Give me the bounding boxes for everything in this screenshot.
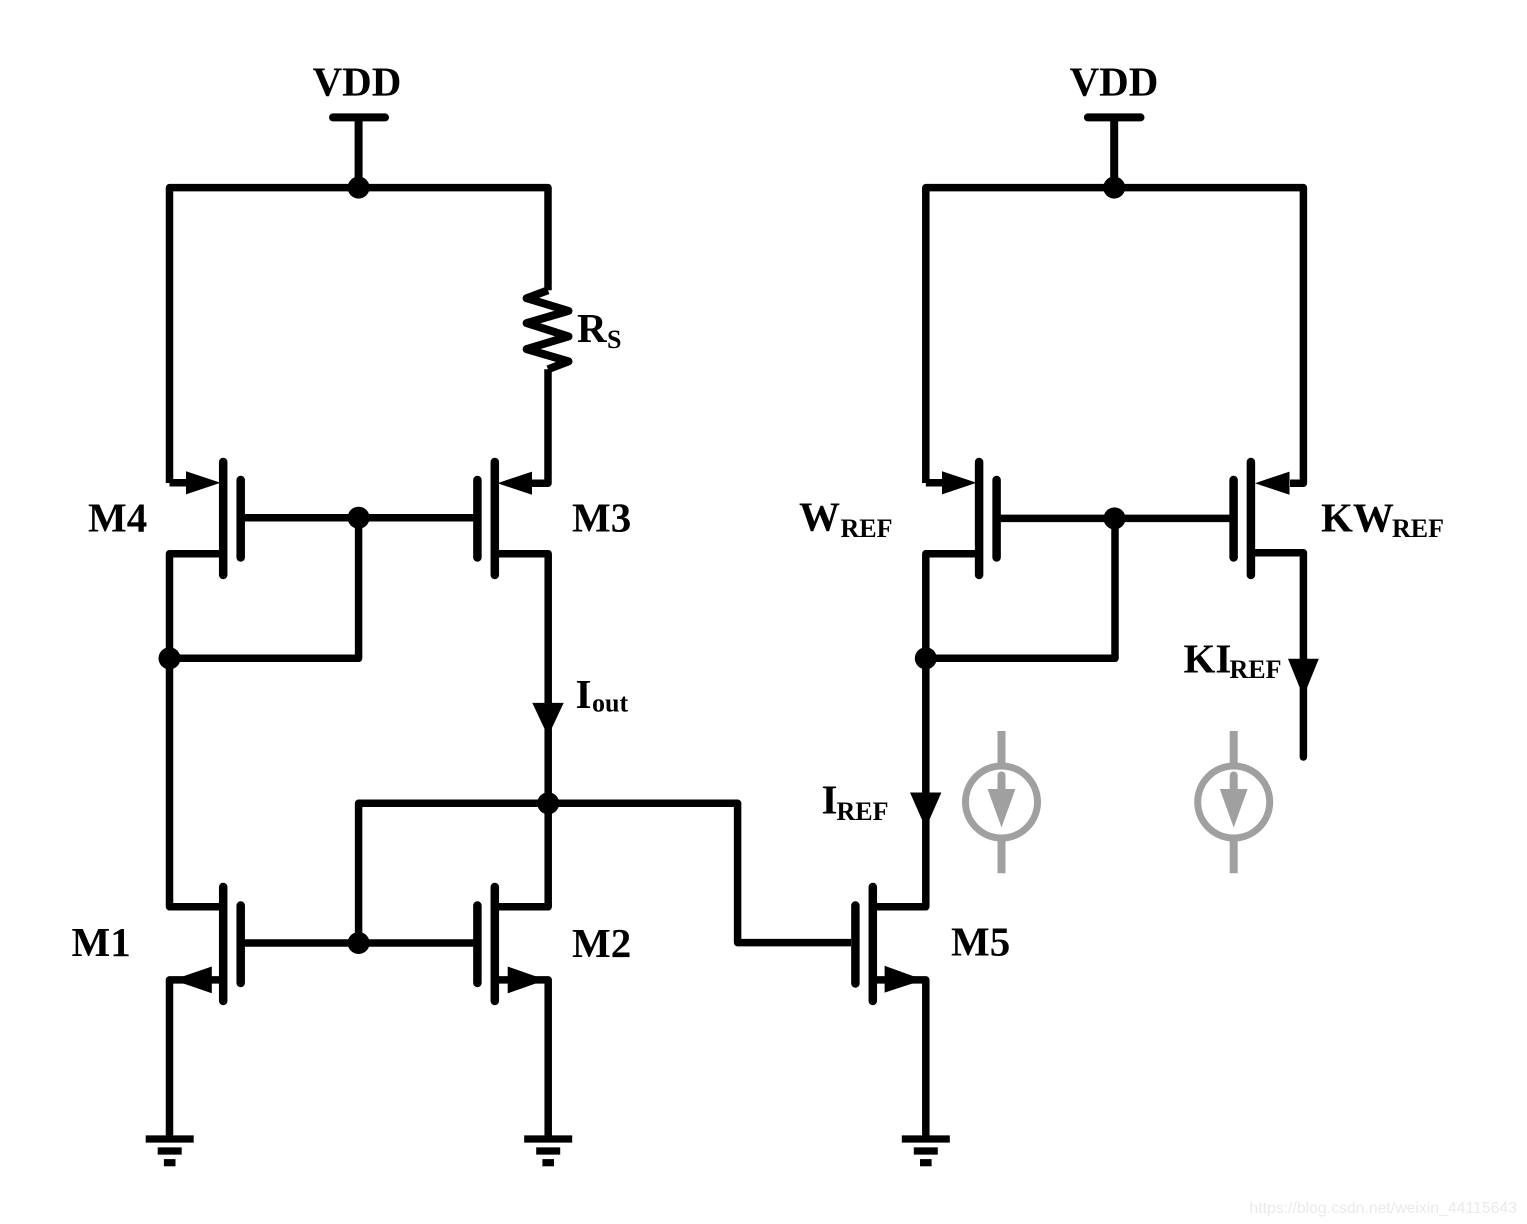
label KWREF: [1321, 494, 1444, 543]
svg-text:I: I: [576, 671, 592, 717]
watermark: [1249, 1200, 1517, 1217]
svg-text:VDD: VDD: [313, 59, 402, 105]
transistor M3 (PMOS): [477, 462, 532, 575]
VDD label (right): [1070, 59, 1159, 105]
VDD supply symbol (left): [333, 114, 385, 188]
transistor KWREF (PMOS): [1234, 462, 1251, 575]
wire: M2 source to ground rail: [495, 980, 548, 1136]
VDD supply symbol (right): [1088, 114, 1141, 188]
svg-text:W: W: [799, 494, 840, 540]
svg-text:REF: REF: [841, 514, 893, 543]
wire: M5 source to ground rail: [873, 980, 926, 1136]
wire: gate-drain tie of M4: [170, 518, 359, 659]
wire: WREF drain down to M5 drain: [873, 554, 979, 907]
node: WREF drain tie dot: [915, 647, 937, 669]
node: VDD junction dot (left): [348, 177, 370, 199]
label WREF: [799, 494, 893, 543]
svg-text:REF: REF: [1392, 514, 1444, 543]
wire: RS bottom to M3 source: [531, 369, 548, 483]
transistor M4 (PMOS): [186, 462, 241, 575]
label M1: [72, 919, 131, 965]
node: gate junction dot (left mirror): [348, 507, 370, 529]
current source (ghost, left): [966, 731, 1038, 873]
label M5: [951, 919, 1010, 965]
arrow: M1 source arrow: [173, 967, 212, 994]
ground (middle): [524, 1139, 572, 1163]
VDD label (left): [313, 59, 402, 105]
transistor M2 (NMOS): [477, 887, 494, 1001]
wire: shared gate wire WREF-KWREF: [997, 515, 1234, 523]
wire: M4 source from left rail: [170, 479, 191, 487]
svg-text:M3: M3: [572, 494, 631, 540]
wire: left top rail from VDD node to RS branch: [170, 188, 549, 483]
svg-text:REF: REF: [1230, 655, 1282, 684]
svg-text:M1: M1: [72, 919, 131, 965]
arrow KIREF: [1288, 659, 1319, 697]
transistor WREF (PMOS): [942, 462, 997, 575]
svg-text:KW: KW: [1321, 494, 1394, 540]
svg-text:S: S: [607, 325, 621, 354]
label M3: [572, 494, 631, 540]
transistor M5 (NMOS): [855, 887, 872, 1001]
svg-text:https://blog.csdn.net/weixin_4: https://blog.csdn.net/weixin_44115643: [1249, 1200, 1517, 1217]
node: gate junction dot (right mirror): [1104, 507, 1126, 529]
label IREF: [822, 776, 889, 826]
wire: shared gate wire M4-M3: [241, 514, 478, 522]
svg-text:out: out: [592, 689, 628, 718]
label RS: [577, 305, 621, 354]
transistor M1 (NMOS): [223, 887, 241, 1001]
ground (left): [146, 1139, 194, 1163]
wire: shared gate wire M1-M2: [241, 939, 478, 947]
wire: right top rail: [926, 188, 1304, 484]
wire: KWREF drain down (KIREF branch): [1251, 553, 1304, 757]
svg-text:I: I: [822, 776, 838, 822]
wire: M2 drain from output node: [495, 803, 548, 907]
label M2: [572, 920, 631, 966]
label KIREF: [1184, 636, 1282, 685]
wire: output node horizontal and drops to gate rows: [359, 803, 851, 943]
wire: WREF source from rail: [926, 479, 946, 487]
current source (ghost, right): [1198, 731, 1270, 873]
wire: M3 drain down to output node: [495, 554, 548, 804]
ground (right): [902, 1139, 950, 1163]
arrow: M5 source arrow: [885, 966, 924, 993]
node: VDD junction dot (right): [1103, 177, 1125, 199]
svg-text:KI: KI: [1184, 636, 1232, 682]
resistor RS: [527, 290, 569, 369]
arrow: M2 source arrow: [508, 967, 546, 994]
svg-text:REF: REF: [837, 797, 889, 826]
arrow Iout: [532, 703, 563, 736]
label M4: [88, 494, 147, 540]
label Iout: [576, 671, 629, 718]
wire: M1 source to ground rail: [170, 980, 224, 1136]
svg-text:VDD: VDD: [1070, 59, 1159, 105]
wire: KWREF source from right rail (arrow): [1255, 472, 1290, 495]
svg-text:R: R: [577, 305, 607, 351]
node: M4 drain-gate tie dot: [159, 647, 181, 669]
svg-text:M4: M4: [88, 494, 147, 540]
node: output junction dot: [537, 792, 559, 814]
node: M1-M2 gate junction dot: [348, 932, 370, 954]
arrow IREF: [910, 793, 941, 829]
svg-text:M2: M2: [572, 920, 631, 966]
wire: gate-drain tie of WREF: [926, 518, 1115, 658]
svg-text:M5: M5: [951, 919, 1010, 965]
wire: M4 drain to left rail, rail down to M1 drain: [170, 554, 224, 907]
